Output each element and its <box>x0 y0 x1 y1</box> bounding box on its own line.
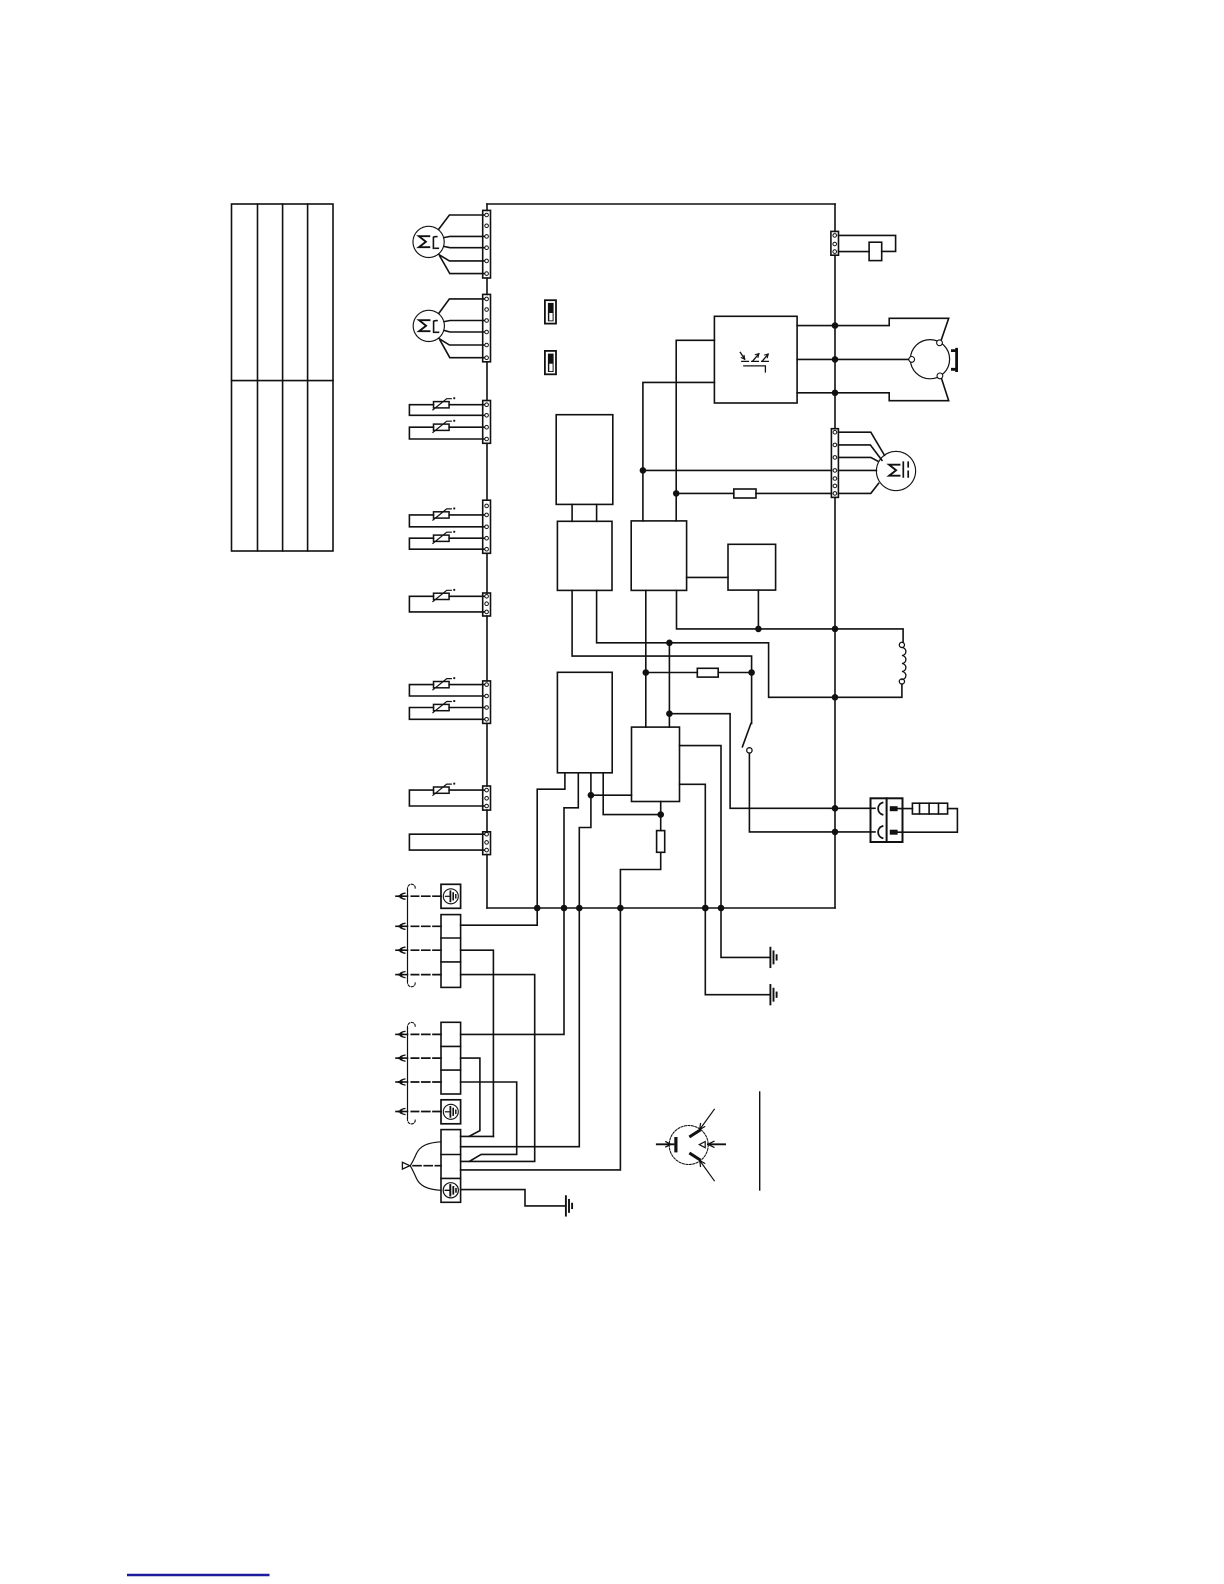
mains plug arrow <box>402 1162 409 1169</box>
DC motor M3 <box>876 451 915 490</box>
plain loop to G6 <box>409 834 484 850</box>
wire B2 splice <box>461 1058 480 1136</box>
dashed sense lines group A <box>411 896 441 974</box>
wire box B left stub to switch <box>572 590 752 723</box>
box B <box>557 521 612 590</box>
wire X-C ground to earth <box>461 1190 565 1206</box>
arrows group A <box>396 893 405 899</box>
thermistor group G3 connector <box>483 593 491 616</box>
wire relay to heater top <box>797 318 949 340</box>
thermistor group G2 connector <box>483 500 491 553</box>
thermistor group G5 connector <box>483 786 491 810</box>
connector X9 (3-pin, mains top) <box>831 231 839 255</box>
motor M1 (wash) <box>413 226 444 257</box>
motor M2 label <box>419 320 438 332</box>
switch S3 <box>742 724 752 754</box>
wire bus pin4 branch <box>643 469 832 471</box>
thermistor R7 loop <box>409 700 484 719</box>
box F <box>632 727 680 801</box>
connector X7 (7-pin) <box>831 429 838 498</box>
wire coil bottom loop <box>597 590 902 697</box>
box A (display module) <box>556 415 613 505</box>
wire E stub4 to fuse junction <box>603 773 661 815</box>
chassis ground plate P1 <box>441 884 461 908</box>
wire E stub3 to rail/X-C1 <box>461 773 591 1147</box>
thermistor R6 loop <box>409 677 484 696</box>
fuse F3 (vertical) <box>461 802 665 1170</box>
links A-B <box>572 504 597 521</box>
wire B3 splice <box>461 1082 517 1161</box>
wire to mains neutral <box>669 714 875 809</box>
thermistor group G1 connector <box>483 401 491 444</box>
wire A2 to X-C1 <box>461 950 494 1136</box>
fuse F1 <box>643 668 755 677</box>
box E <box>557 672 612 773</box>
mains cable brace <box>410 1142 441 1191</box>
thermistor group G4 connector <box>483 681 491 724</box>
arrow stems group A <box>396 896 408 974</box>
wire relay left 2 <box>643 382 715 521</box>
wire F right 2 to earth <box>680 784 770 994</box>
optical sensor <box>657 1109 725 1180</box>
thermistor R2 loop <box>409 420 484 439</box>
wire X-C1 row1 <box>461 1135 494 1137</box>
motor M2 (drain) <box>413 310 444 341</box>
mains connector X-P <box>871 798 903 842</box>
rail from box C to coil <box>677 590 904 642</box>
thermistor R5 loop <box>409 589 484 612</box>
wire 669 vertical to box F <box>668 643 670 727</box>
thermistor R3 loop <box>409 508 484 527</box>
arrow stems group B <box>396 1034 408 1111</box>
wire box D bottom <box>757 590 759 629</box>
earth ground E3 <box>566 1196 572 1215</box>
branch E stub3 to box F left <box>591 794 632 796</box>
wires motor M2 to X2 <box>439 299 484 358</box>
wire E stub1 to rail/G-A1 <box>461 773 565 925</box>
thermistor R8 loop <box>409 783 484 806</box>
earth ground E1 <box>770 948 776 967</box>
interference suppressor C1 <box>839 235 896 260</box>
footer link line <box>127 1574 270 1577</box>
wires motor M1 to X1 <box>439 215 484 274</box>
coil L1 <box>899 642 906 684</box>
wire switch to mains live <box>749 753 875 832</box>
relay box K1 <box>714 316 797 403</box>
dashed mains line <box>413 1165 441 1167</box>
thermistor R4 loop <box>409 531 484 549</box>
cable bundle line A <box>407 890 409 981</box>
jumper link S1 <box>545 300 556 323</box>
wire box C left stub down to box F <box>645 590 647 727</box>
dots on bottom rail <box>702 905 709 912</box>
connector block A <box>441 915 461 988</box>
thermistor R1 loop <box>409 397 484 415</box>
wire E stub2 to rail/G-B1 <box>461 773 579 1035</box>
reference line <box>759 1092 761 1190</box>
sensor loop G6 connector <box>483 832 491 855</box>
program table <box>232 204 334 551</box>
wires X7 to M3 <box>838 432 884 493</box>
wire relay to pump <box>797 358 909 360</box>
connector X1 (6-pin) <box>483 210 491 278</box>
chassis ground plate P2 <box>441 1100 461 1124</box>
main board outline bus <box>487 204 835 908</box>
wire relay to heater bottom <box>797 379 949 401</box>
wire C-D <box>687 576 728 578</box>
arrows group B <box>396 1031 405 1037</box>
connector X2 (6-pin) <box>483 294 491 361</box>
wire relay left 1 <box>676 340 714 521</box>
wire A3 to X-C2 <box>461 975 535 1162</box>
cable bundle line B <box>407 1028 409 1118</box>
box C <box>631 521 686 591</box>
connector block C (mains inlet) <box>441 1130 461 1203</box>
motor M1 label <box>419 236 438 248</box>
thermal fuse block <box>898 803 958 832</box>
wire F right 1 to earth <box>680 746 770 958</box>
fuse F2 to pin7 <box>673 489 832 498</box>
connector block B <box>441 1022 461 1094</box>
dots on right bus at pump <box>832 322 839 329</box>
relay contact symbol <box>740 352 768 372</box>
jumper link S2 <box>545 351 556 374</box>
motor M3 label <box>889 462 908 477</box>
bracket clamp <box>952 349 956 370</box>
earth ground E2 <box>770 985 776 1004</box>
heat pump motor circle <box>909 340 950 379</box>
box D <box>728 544 776 590</box>
dashed sense lines group B <box>411 1034 441 1111</box>
